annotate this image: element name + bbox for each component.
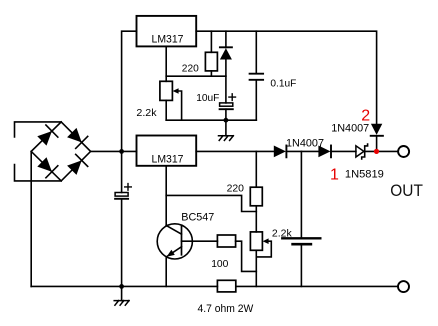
- svg-text:LM317: LM317: [152, 154, 184, 166]
- svg-text:2.2k: 2.2k: [136, 107, 157, 119]
- svg-text:2.2k: 2.2k: [272, 227, 293, 239]
- svg-text:0.1uF: 0.1uF: [270, 78, 296, 90]
- svg-text:OUT: OUT: [390, 181, 423, 200]
- svg-text:4.7 ohm 2W: 4.7 ohm 2W: [198, 303, 255, 315]
- svg-text:10uF: 10uF: [196, 92, 219, 104]
- svg-text:1N4007: 1N4007: [286, 138, 324, 150]
- svg-text:BC547: BC547: [181, 211, 214, 223]
- svg-text:1: 1: [330, 167, 339, 184]
- svg-text:LM317: LM317: [152, 34, 184, 46]
- svg-text:1N5819: 1N5819: [345, 169, 384, 181]
- svg-text:100: 100: [211, 258, 228, 270]
- svg-text:220: 220: [227, 183, 245, 195]
- svg-text:2: 2: [361, 108, 370, 125]
- svg-text:220: 220: [182, 63, 199, 75]
